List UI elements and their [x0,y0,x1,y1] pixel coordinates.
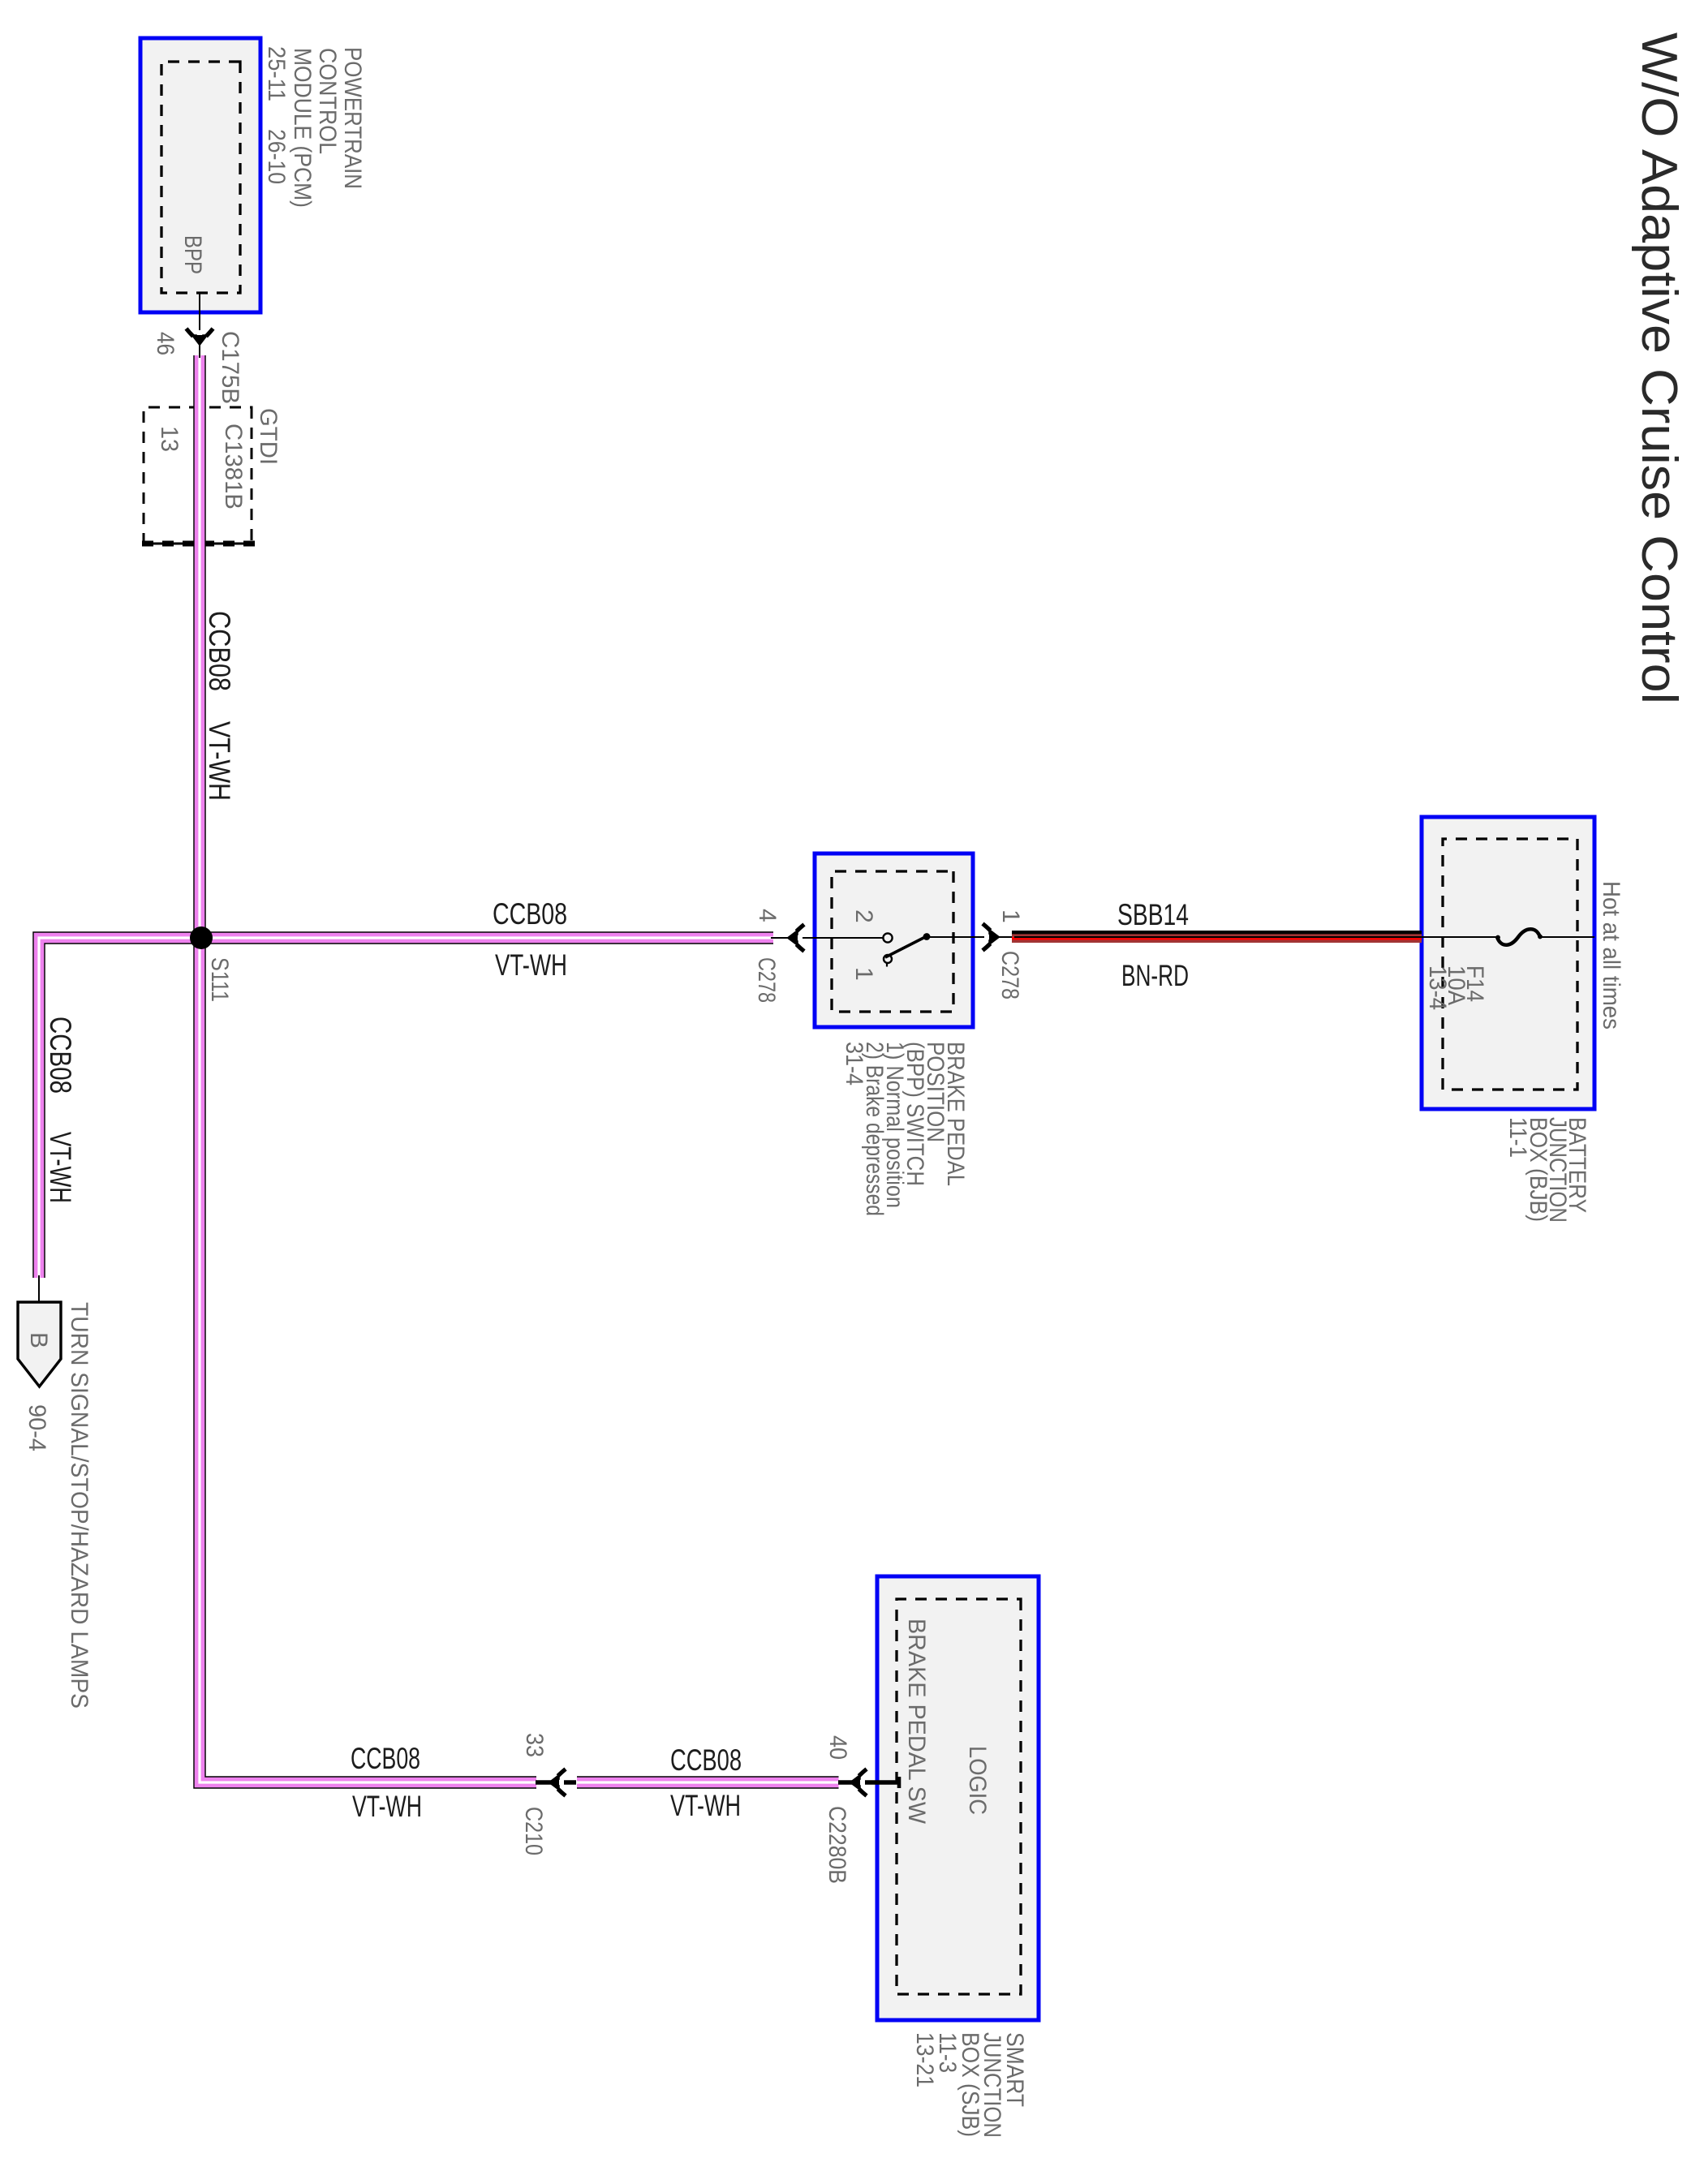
fuse F14 label [1424,965,1488,1010]
svg-text:SBB14: SBB14 [1117,898,1189,931]
svg-text:13: 13 [156,426,183,452]
svg-text:BRAKE PEDAL SW: BRAKE PEDAL SW [903,1619,930,1825]
svg-text:CCB08: CCB08 [203,611,236,691]
BJB label [1504,1117,1590,1223]
brake pedal position switch box [815,853,973,1027]
wire SBB14 BN-RD red wire (sheath) [1012,937,1422,939]
wire lead pentagon B [38,1275,40,1302]
connector C210 thick lead bar [536,1780,576,1785]
svg-text:13-21: 13-21 [911,2032,938,2087]
SJB label [911,2032,1028,2138]
svg-text:CONTROL: CONTROL [314,48,341,154]
powertrain control module PCM box [140,38,260,312]
svg-text:BN-RD: BN-RD [1121,959,1189,992]
svg-text:VT-WH: VT-WH [203,721,236,801]
connector C278 pin4 arrow (points down) [788,925,805,952]
connector C2280B arrow (points down) [850,1769,867,1796]
contact stub [886,964,888,967]
GTDI connector heavy edge [140,541,255,547]
svg-text:1: 1 [997,909,1024,923]
wire lead BPP pin 1 [926,936,1012,938]
connector C210 arrow (points down) [549,1769,566,1796]
svg-text:POWERTRAIN: POWERTRAIN [339,47,366,189]
SJB inner dashed box [897,1599,1021,1994]
svg-text:CCB08: CCB08 [351,1742,420,1775]
wire CCB08 branch to pentagon B (sheath) [39,938,773,1278]
PCM label [263,46,366,208]
battery junction box BJB [1422,817,1594,1109]
svg-text:Hot at all times: Hot at all times [1598,881,1624,1030]
svg-text:26-10: 26-10 [263,129,290,184]
svg-text:33: 33 [521,1733,548,1757]
splice node S111 [190,926,213,949]
svg-text:CCB08: CCB08 [493,897,567,931]
svg-text:90-4: 90-4 [24,1404,50,1451]
svg-text:4: 4 [754,909,781,922]
smart junction box SJB [877,1576,1039,2020]
svg-text:VT-WH: VT-WH [44,1132,77,1203]
svg-text:S111: S111 [206,957,233,1002]
svg-text:GTDI: GTDI [255,408,282,465]
svg-text:LOGIC: LOGIC [964,1746,991,1815]
switch contact circle (position 1) [884,955,892,963]
BPP switch label [841,1042,969,1216]
svg-text:25-11: 25-11 [263,46,290,101]
BPP switch inner dashed box [832,871,953,1012]
PCM inner dashed box [161,62,240,293]
svg-text:CCB08: CCB08 [44,1017,77,1094]
fuse F14 element [1495,929,1543,945]
svg-text:VT-WH: VT-WH [352,1790,422,1823]
svg-text:11-1: 11-1 [1504,1117,1531,1158]
GTDI dashed box [144,407,252,544]
svg-text:C1381B: C1381B [220,423,247,509]
switch contact circle (pin 4 side) [883,933,892,942]
svg-text:B: B [25,1332,52,1348]
svg-text:C278: C278 [753,957,780,1003]
connector C278 pin1 arrow (points up) [983,924,1000,951]
svg-text:TURN SIGNAL/STOP/HAZARD LAMPS: TURN SIGNAL/STOP/HAZARD LAMPS [66,1302,93,1709]
blade pivot dot [923,933,931,940]
svg-text:C175B: C175B [217,331,243,404]
svg-text:CCB08: CCB08 [670,1743,742,1777]
svg-text:C278: C278 [996,951,1023,1000]
svg-text:31-4: 31-4 [841,1042,867,1086]
svg-text:MODULE (PCM): MODULE (PCM) [289,48,316,208]
svg-text:1: 1 [850,967,877,981]
svg-text:VT-WH: VT-WH [670,1789,741,1822]
connector C2280B thick lead bar with terminal tick [838,1780,899,1785]
switch blade [885,936,927,957]
svg-text:BPP: BPP [179,235,206,274]
svg-text:C210: C210 [520,1807,547,1855]
svg-text:40: 40 [824,1735,851,1760]
connector C175B arrow [187,329,213,346]
svg-text:13-4: 13-4 [1424,965,1451,1010]
BJB inner dashed box [1443,839,1577,1090]
svg-text:2: 2 [850,909,877,923]
svg-text:C2280B: C2280B [824,1806,850,1884]
svg-text:46: 46 [152,332,179,355]
wire lead PCM pin 46 [199,293,200,358]
wire lead BPP pin 4 [771,937,884,939]
svg-text:VT-WH: VT-WH [495,948,567,982]
off-page connector B pentagon [18,1302,61,1386]
wire inside BJB with fuse gap [1014,936,1594,938]
wire CCB08 VT-WH main run: PCM to corner to SJB (sheath) [200,355,839,1782]
svg-text:W/O Adaptive Cruise Control: W/O Adaptive Cruise Control [1631,32,1687,704]
